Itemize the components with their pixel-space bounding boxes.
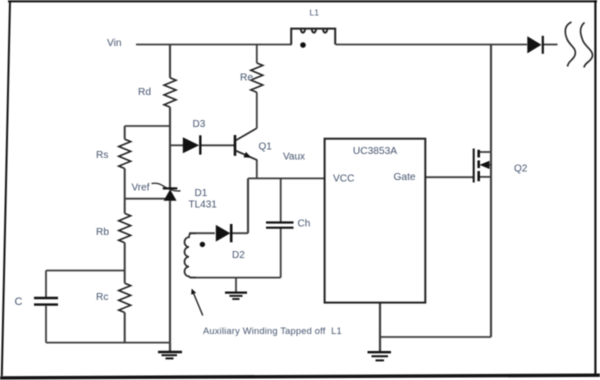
svg-text:D3: D3 (193, 119, 206, 130)
svg-text:TL431: TL431 (189, 200, 218, 211)
svg-text:C: C (15, 296, 23, 308)
svg-text:Rc: Rc (96, 292, 108, 303)
svg-text:D2: D2 (232, 250, 245, 261)
svg-text:Q2: Q2 (514, 164, 528, 175)
svg-text:UC3853A: UC3853A (353, 146, 397, 157)
svg-text:VCC: VCC (333, 174, 355, 185)
svg-text:Ch: Ch (298, 219, 311, 230)
svg-text:Vref: Vref (132, 183, 150, 194)
svg-text:Re: Re (240, 73, 253, 84)
svg-text:Gate: Gate (394, 172, 416, 183)
svg-text:Auxiliary Winding Tapped off: Auxiliary Winding Tapped off L1 (203, 326, 342, 336)
svg-text:Rd: Rd (138, 87, 151, 98)
svg-text:D1: D1 (195, 188, 208, 199)
svg-text:Rs: Rs (96, 150, 108, 161)
svg-text:L1: L1 (310, 8, 320, 18)
svg-text:Vin: Vin (107, 38, 122, 49)
svg-text:Q1: Q1 (259, 142, 273, 153)
svg-text:Vaux: Vaux (283, 152, 305, 163)
svg-text:Rb: Rb (96, 227, 109, 238)
